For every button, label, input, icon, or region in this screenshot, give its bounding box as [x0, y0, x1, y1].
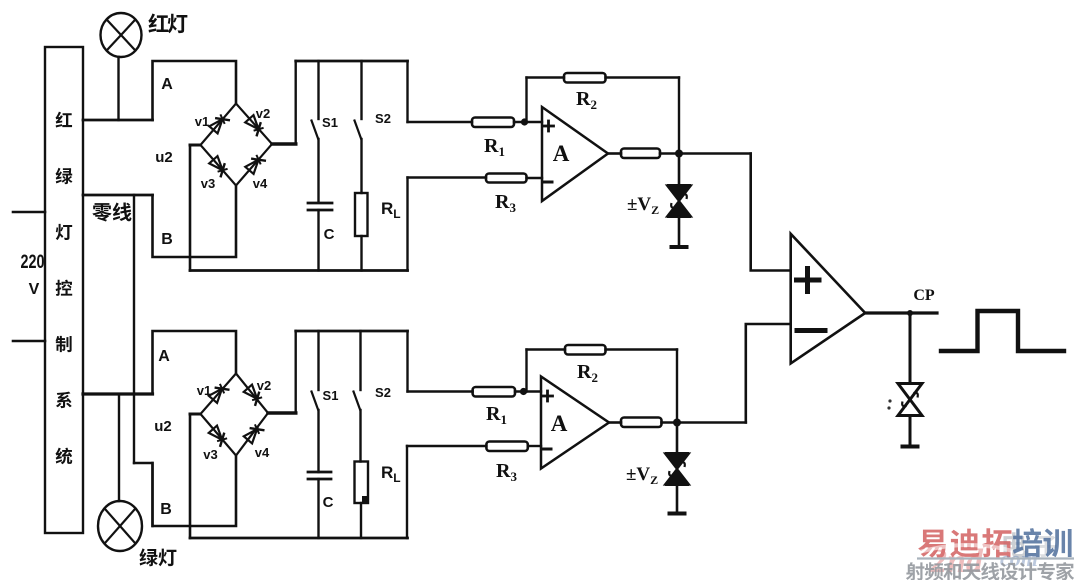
wire feedback left riser (lower)	[525, 350, 527, 392]
svg-text:A: A	[551, 411, 568, 436]
bridge U2 top edges	[201, 104, 273, 186]
wire opamp output (lower)	[609, 421, 621, 424]
resistor R1 (top)	[472, 118, 514, 128]
zener pair ±Vz lower lead (lower)	[676, 485, 679, 513]
watermark tagline 射频和天线设计专家	[906, 562, 1074, 580]
wire output to comparator node (lower)	[662, 421, 746, 424]
wire S-box left edge (top)	[295, 61, 297, 144]
wire opamp output (top)	[608, 152, 621, 155]
op-amp A + marker (top)	[544, 121, 554, 131]
label v4	[253, 176, 268, 191]
svg-text:C: C	[323, 494, 334, 511]
label A (lower op-amp)	[551, 411, 568, 436]
wire output to comparator node (top)	[660, 152, 751, 155]
label u2 (lower bridge)	[154, 418, 172, 435]
op-amp A (top)	[542, 107, 608, 201]
bridge U2 lower edges	[201, 374, 269, 456]
switch S2 (lower)	[354, 331, 361, 462]
label S1 (lower)	[323, 388, 339, 403]
watermark white swoosh	[916, 545, 1013, 553]
wire lower B drop	[153, 456, 237, 527]
wire R3 to opamp - (lower)	[528, 445, 541, 447]
label ±Vz (lower)	[626, 464, 658, 487]
svg-text:2nd: 2nd	[929, 543, 984, 580]
label B (lower channel)	[160, 501, 172, 518]
label R1 (lower)	[486, 403, 507, 427]
label R3 (lower)	[496, 460, 517, 484]
wire R3 feed riser (top)	[406, 178, 408, 271]
capacitor C (top)	[308, 203, 332, 271]
svg-text:v2: v2	[256, 106, 270, 121]
op-amp A - marker (lower)	[543, 448, 551, 451]
comparator + marker	[797, 269, 820, 292]
resistor RL (top)	[355, 193, 368, 271]
zener pair ±Vz lower lead (top)	[678, 217, 681, 247]
svg-text:A: A	[158, 348, 170, 365]
wire lower channel to comparator -	[746, 324, 791, 423]
svg-text:220: 220	[21, 252, 45, 273]
control box 红绿灯控制系统	[45, 47, 83, 533]
zener pair ±Vz lead (top)	[678, 154, 681, 186]
terminal bar (top zener)	[672, 245, 687, 249]
svg-text:v3: v3	[203, 447, 217, 462]
wire S-box bottom rail (top)	[190, 269, 408, 272]
label R2 (lower)	[577, 361, 598, 385]
zener pair ±Vz (lower)	[665, 454, 689, 485]
wire phase A to bridge U2 (node A)	[83, 119, 153, 122]
node CP junction	[907, 310, 913, 316]
label 零线	[92, 202, 131, 221]
capacitor C (lower)	[308, 472, 331, 538]
svg-text:u2: u2	[155, 149, 173, 166]
speckle artifact near CP zener	[887, 399, 891, 409]
label RL (lower)	[381, 463, 401, 485]
wire top A riser	[153, 61, 237, 120]
label A (top op-amp)	[553, 141, 570, 166]
resistor RL (lower)	[355, 462, 370, 539]
label 绿灯	[139, 548, 176, 566]
diode v1 (lower bridge)	[209, 384, 230, 403]
resistor R2 (lower)	[565, 345, 606, 355]
label v3	[201, 176, 215, 191]
wire R3 feed riser (lower)	[406, 446, 408, 538]
svg-text:v4: v4	[255, 445, 270, 460]
220V AC supply terminal upper stub	[13, 211, 45, 214]
svg-text:B: B	[160, 501, 172, 518]
wire feedback top right (lower)	[606, 348, 678, 350]
label S2 (top)	[375, 111, 391, 126]
comparator triangle	[791, 234, 866, 364]
svg-text:v1: v1	[197, 383, 211, 398]
wire lower A riser	[153, 331, 237, 394]
wire lamp HL2 stem	[118, 394, 120, 501]
zener CP lead	[909, 313, 912, 384]
zener CP lower lead	[909, 416, 912, 446]
label RL (top)	[381, 199, 401, 221]
zener pair ±Vz lead (lower)	[676, 423, 679, 454]
wire S-box right edge upper (top)	[406, 61, 408, 122]
wire feedback top left (top)	[527, 76, 565, 78]
svg-text:v1: v1	[195, 114, 209, 129]
wire bridge DC- down	[189, 145, 192, 271]
wire neutral step to lower B	[134, 463, 153, 526]
diode v1 (top bridge)	[209, 114, 230, 133]
lamp HL2 green light	[98, 501, 142, 551]
wire S-box right edge upper (lower)	[406, 331, 408, 392]
op-amp A (lower)	[541, 377, 609, 469]
wire lamp HL1 stem	[117, 57, 119, 120]
label v1 (lower)	[197, 383, 211, 398]
label R2 (top)	[576, 88, 597, 112]
wire to R1 (lower)	[408, 390, 473, 392]
svg-text:V: V	[29, 281, 40, 298]
terminal bar (lower zener)	[670, 512, 685, 516]
wire S-box top rail (lower)	[296, 330, 408, 333]
wire neutral 零线	[83, 194, 153, 197]
wire comparator output CP	[865, 311, 937, 314]
220V AC supply terminal lower stub	[13, 340, 45, 343]
label v2	[256, 106, 270, 121]
resistor R2 (top)	[564, 73, 606, 83]
switch S1 (top)	[312, 61, 319, 202]
diode v2 (top bridge)	[245, 115, 263, 136]
svg-text:B: B	[161, 231, 173, 248]
svg-text:A: A	[161, 76, 173, 93]
op-amp A - marker (top)	[544, 181, 552, 184]
wire lower bridge DC+ stub	[268, 411, 296, 415]
wire feedback top left (lower)	[527, 348, 566, 350]
svg-text:A: A	[553, 141, 570, 166]
label S1 (top)	[322, 115, 338, 130]
label v4 (lower)	[255, 445, 270, 460]
watermark divider line	[917, 557, 1074, 559]
label u2 (top bridge)	[155, 149, 173, 166]
svg-text:v3: v3	[201, 176, 215, 191]
svg-text:v4: v4	[253, 176, 268, 191]
diode v3 (lower bridge)	[209, 426, 227, 447]
comparator - marker	[797, 328, 825, 333]
terminal bar (CP zener)	[903, 445, 918, 449]
wire neutral drop to lower channel	[133, 195, 135, 463]
op-amp A + marker (lower)	[543, 391, 553, 401]
label B (top channel)	[161, 231, 173, 248]
diode v4 (top bridge)	[245, 155, 266, 174]
node dot + input (top)	[521, 118, 528, 125]
svg-text:v2: v2	[257, 378, 271, 393]
wire R1 to opamp + (lower)	[515, 390, 541, 392]
label A (top channel)	[161, 76, 173, 93]
node dot + input (lower)	[520, 388, 527, 395]
wire to R3 (top)	[408, 176, 487, 178]
switch S1 (lower)	[312, 331, 319, 472]
resistor Rout (lower)	[621, 418, 662, 428]
wire feedback right riser (lower)	[676, 350, 678, 423]
wire lower bridge DC- stub	[190, 413, 201, 416]
resistor R1 (lower)	[473, 387, 515, 397]
label ±Vz (top)	[627, 194, 659, 217]
wire top B drop	[153, 186, 237, 258]
label v3 (lower)	[203, 447, 217, 462]
label v2 (lower)	[257, 378, 271, 393]
node dot output (lower)	[673, 419, 681, 427]
svg-text:S2: S2	[375, 111, 391, 126]
label v1	[195, 114, 209, 129]
svg-text:S1: S1	[323, 388, 339, 403]
diode v3 (top bridge)	[209, 156, 227, 177]
zener pair at CP	[898, 384, 922, 416]
resistor R3 (lower)	[486, 442, 527, 452]
wire R1 to opamp + (top)	[514, 121, 542, 123]
label C (top)	[324, 226, 335, 243]
svg-text:S1: S1	[322, 115, 338, 130]
svg-text:u2: u2	[154, 418, 172, 435]
diode v2 (lower bridge)	[244, 385, 262, 406]
lamp HL1 red light	[101, 13, 142, 57]
label A (lower channel)	[158, 348, 170, 365]
wire to R1 (top)	[408, 121, 473, 123]
node dot output (top)	[675, 150, 683, 158]
wire lower bridge DC- down	[189, 414, 192, 538]
label 红灯	[148, 13, 187, 33]
watermark swirl overlay	[929, 543, 1038, 580]
wire S-box top rail (top)	[296, 60, 408, 63]
svg-text:S2: S2	[375, 385, 391, 400]
zener pair ±Vz (top)	[667, 186, 691, 217]
wire to R3 (lower)	[407, 445, 486, 447]
label R1 (top)	[484, 135, 505, 159]
wire R3 to opamp - (top)	[527, 177, 543, 179]
wire bridge DC- stub left	[190, 144, 201, 147]
square wave pulse symbol	[941, 311, 1064, 351]
label C (lower)	[323, 494, 334, 511]
wire feedback right riser (top)	[678, 78, 680, 154]
wire feedback top right (top)	[606, 76, 680, 78]
wire S-box left edge (lower)	[295, 331, 297, 413]
resistor Rout (top)	[621, 149, 660, 159]
wire S-box bottom rail (lower)	[190, 537, 408, 540]
wire top channel to comparator +	[751, 154, 791, 271]
diode v4 (lower bridge)	[244, 424, 265, 443]
switch S2 (top)	[355, 61, 362, 193]
watermark logo 易迪拓培训	[918, 528, 1071, 557]
resistor R3 (top)	[486, 174, 527, 183]
label R3 (top)	[495, 191, 516, 215]
label S2 (lower)	[375, 385, 391, 400]
svg-text:CP: CP	[913, 287, 935, 304]
wire phase B to lower bridge (node A)	[83, 392, 153, 395]
wire feedback left riser (top)	[525, 78, 527, 123]
control box vertical label text	[56, 112, 73, 465]
label CP	[913, 287, 935, 304]
svg-text:C: C	[324, 226, 335, 243]
wire bridge DC+ stub right	[272, 142, 296, 146]
label 220 V	[21, 252, 45, 298]
